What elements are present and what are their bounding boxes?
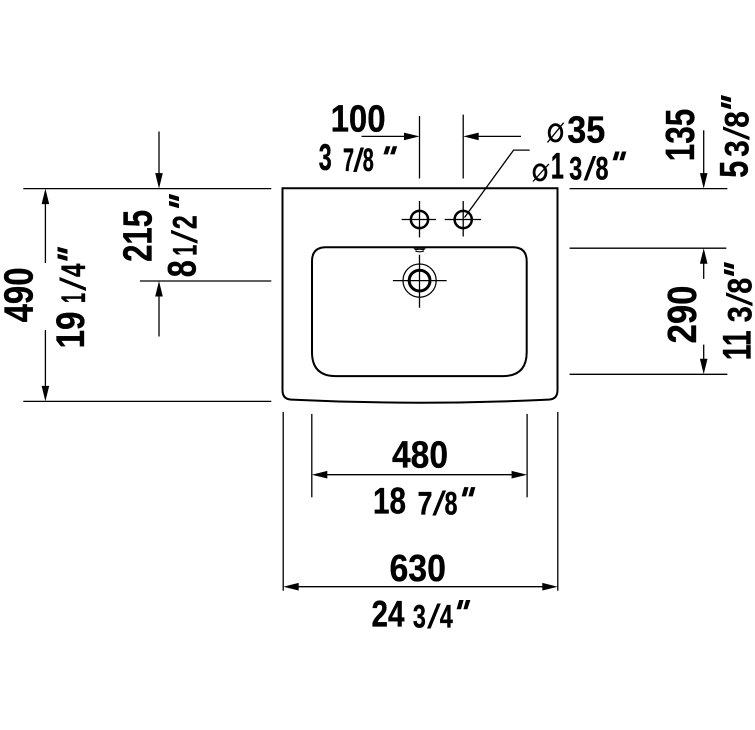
faucet hole right crosshair — [445, 201, 481, 237]
faucet hole left crosshair — [402, 201, 437, 237]
basin inner outline — [312, 247, 527, 376]
label diameter 35 — [548, 109, 606, 151]
svg-text:3: 3 — [319, 136, 332, 178]
svg-text:630: 630 — [389, 548, 446, 590]
leader line for faucet hole diameter — [465, 150, 530, 217]
svg-text:2: 2 — [167, 215, 205, 229]
overflow slot — [413, 248, 425, 252]
label 100 — [331, 99, 386, 141]
label diameter 1 3/8 inch — [533, 145, 626, 187]
svg-text:7: 7 — [418, 486, 433, 522]
svg-text:215: 215 — [115, 210, 161, 262]
svg-text:490: 490 — [0, 267, 42, 322]
svg-text:8: 8 — [722, 278, 755, 294]
svg-text:1: 1 — [167, 245, 205, 256]
label 480 — [392, 435, 448, 477]
svg-text:3: 3 — [569, 151, 582, 187]
label 5 3/8 inch rotated — [713, 95, 755, 178]
svg-text:3: 3 — [722, 306, 755, 322]
bottom extension line basin left — [311, 414, 313, 497]
svg-text:8: 8 — [161, 260, 205, 277]
svg-text:8: 8 — [363, 142, 374, 178]
svg-text:4: 4 — [440, 599, 453, 635]
dim 480 line with arrowheads — [312, 471, 527, 479]
label 8 1/2 inch rotated — [161, 194, 205, 277]
right extension line basin top — [570, 247, 727, 249]
faucet hole right circle — [455, 211, 472, 228]
dim 215 line: top segment + arrowhead down — [155, 132, 163, 189]
right extension line basin bottom — [570, 373, 728, 375]
dim 490 line: bottom shaft + arrowhead — [42, 330, 50, 401]
drain inner circle — [409, 270, 430, 291]
dim 630 line with arrowheads — [283, 583, 558, 591]
label 18 7/8 inch — [373, 480, 475, 522]
left extension line sink bottom — [23, 400, 271, 402]
right extension line sink top — [570, 188, 728, 190]
drain outer circle — [403, 264, 436, 297]
svg-text:135: 135 — [657, 109, 703, 162]
dim 100 line right segment + arrowhead — [463, 133, 521, 141]
label 24 3/4 inch — [372, 593, 471, 635]
label 3 7/8 inch — [319, 136, 397, 178]
dim 100 line left segment + arrowhead — [362, 133, 420, 141]
svg-text:4: 4 — [55, 263, 93, 277]
extension line hole1 (dim 100) — [419, 116, 421, 179]
svg-text:35: 35 — [567, 109, 605, 151]
svg-text:8: 8 — [596, 151, 609, 187]
bottom extension line sink left — [282, 412, 284, 591]
sink outer outline — [283, 188, 558, 402]
dim 135 line + arrowhead down — [700, 130, 708, 188]
dim 290 line: bottom shaft + arrowhead down — [700, 345, 708, 375]
bottom extension line basin right — [526, 414, 528, 497]
label 290 rotated — [659, 286, 705, 344]
svg-text:290: 290 — [659, 286, 705, 344]
svg-text:100: 100 — [331, 99, 386, 141]
label 490 rotated — [0, 267, 42, 322]
label 135 rotated — [657, 109, 703, 162]
svg-text:480: 480 — [392, 435, 448, 477]
label 11 3/8 inch rotated — [716, 262, 755, 360]
label 19 1/4 inch rotated — [49, 247, 93, 349]
svg-text:3: 3 — [413, 599, 426, 635]
svg-text:5: 5 — [713, 161, 755, 178]
svg-text:7: 7 — [343, 142, 354, 178]
svg-text:19: 19 — [49, 312, 93, 349]
svg-text:24: 24 — [372, 593, 405, 635]
svg-text:1: 1 — [551, 145, 564, 187]
svg-text:1: 1 — [55, 293, 93, 303]
svg-text:8: 8 — [445, 486, 458, 522]
left extension line drain center — [140, 280, 271, 282]
svg-text:3: 3 — [719, 140, 755, 157]
svg-text:11: 11 — [716, 330, 755, 360]
dim 290 line: top arrowhead up + shaft — [700, 248, 708, 279]
label 215 rotated — [115, 210, 161, 262]
dim 490 line: top arrowhead + shaft — [42, 189, 50, 263]
drain crosshair — [393, 255, 447, 308]
label 630 — [389, 548, 446, 590]
svg-text:8: 8 — [719, 111, 755, 128]
svg-text:18: 18 — [373, 480, 406, 522]
bottom extension line sink right — [557, 412, 559, 591]
left extension line sink top — [23, 188, 271, 190]
dim 215 line: bottom arrowhead up + segment — [155, 281, 163, 337]
faucet hole left circle — [411, 211, 428, 228]
extension line hole2 (dim 100) — [462, 115, 464, 179]
